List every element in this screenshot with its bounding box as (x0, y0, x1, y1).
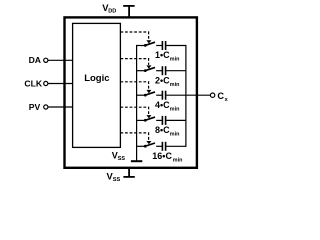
svg-text:min: min (173, 158, 183, 164)
wire row 5 right (166, 145, 186, 147)
wire row 3 to capacitor (156, 94, 162, 96)
CLK terminal circle (44, 81, 48, 85)
svg-text:PV: PV (29, 102, 41, 112)
arrow row 1 (146, 40, 151, 43)
label 2·Cmin (155, 75, 179, 88)
left VSS bus (136, 45, 138, 161)
arrow row 4 (146, 115, 151, 118)
label 16·Cmin (152, 151, 182, 164)
arrow row 2 (146, 65, 151, 68)
label 8·Cmin (155, 125, 179, 138)
VSS internal label (112, 150, 126, 162)
wire row 4 to capacitor (156, 119, 162, 121)
Cx label (217, 91, 228, 103)
svg-text:x: x (225, 97, 229, 103)
label 4·Cmin (155, 100, 179, 113)
switch S1 (144, 42, 155, 47)
capacitor C5 (162, 142, 165, 151)
wire CLK to logic (48, 83, 73, 85)
switch S5 (144, 143, 155, 148)
wire row 1 to capacitor (156, 45, 162, 47)
capacitor C4 (162, 116, 165, 125)
svg-text:16•C: 16•C (152, 151, 172, 161)
outer box (chip boundary) (65, 17, 197, 167)
Cx terminal circle (210, 93, 214, 97)
wire DA to logic (48, 59, 73, 61)
control dashed wire row 5 (120, 133, 148, 141)
control dashed wire row 1 (120, 32, 148, 40)
switch S3 (144, 92, 155, 97)
svg-text:min: min (170, 132, 180, 138)
wire row 1 right (166, 45, 186, 47)
wire row 2 right (166, 70, 186, 72)
svg-text:DA: DA (29, 55, 41, 65)
svg-text:2•C: 2•C (155, 75, 170, 85)
wire row 4 left (137, 119, 145, 121)
label 1·Cmin (155, 50, 179, 63)
control dashed wire row 2 (120, 59, 148, 65)
svg-text:4•C: 4•C (155, 100, 170, 110)
svg-text:SS: SS (113, 177, 121, 183)
wire row 1 left (137, 45, 145, 47)
svg-text:1•C: 1•C (155, 50, 170, 60)
VSS internal symbol (131, 160, 142, 162)
svg-text:DD: DD (108, 8, 116, 14)
control dashed wire row 3 (120, 82, 148, 90)
wire row 2 left (137, 70, 145, 72)
logic block U1 (73, 23, 121, 147)
svg-text:SS: SS (118, 156, 126, 162)
CLK label (24, 78, 42, 88)
wire row 5 to capacitor (156, 145, 162, 147)
wire row 2 to capacitor (156, 70, 162, 72)
control dashed wire row 4 (120, 107, 148, 114)
right Cx bus (185, 45, 187, 147)
VDD supply symbol (123, 6, 134, 18)
wire PV to logic (48, 106, 73, 108)
DA terminal circle (44, 58, 48, 62)
svg-text:min: min (170, 82, 180, 88)
PV label (29, 102, 41, 112)
wire row 3 left (137, 94, 145, 96)
capacitor C2 (162, 66, 165, 75)
svg-text:Logic: Logic (84, 73, 109, 84)
PV terminal circle (44, 105, 48, 109)
capacitor C3 (162, 91, 165, 100)
capacitor C1 (162, 41, 165, 50)
arrow row 5 (146, 141, 151, 144)
svg-text:CLK: CLK (24, 78, 42, 88)
VSS external symbol (123, 168, 134, 177)
switch S4 (144, 117, 155, 122)
svg-text:min: min (170, 57, 180, 63)
svg-text:C: C (217, 91, 224, 101)
wire row 4 right (166, 119, 186, 121)
wire row 5 left (137, 145, 145, 147)
svg-text:8•C: 8•C (155, 125, 170, 135)
svg-text:min: min (170, 106, 180, 112)
DA label (29, 55, 41, 65)
VDD label (102, 2, 116, 15)
VSS external label (107, 170, 121, 183)
switch S2 (144, 67, 155, 72)
arrow row 3 (146, 90, 151, 93)
wire row 3 right to Cx (166, 94, 210, 96)
